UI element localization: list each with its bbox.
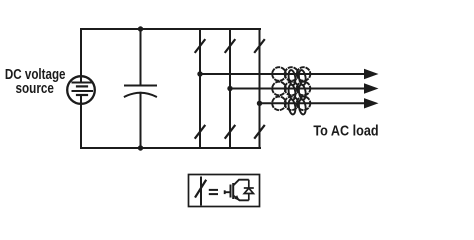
legend: equals sign (209, 190, 218, 194)
legend: switch (slash) symbol (196, 178, 206, 205)
junction dot: top rail / capacitor (138, 26, 143, 31)
wire: phase A output line (200, 73, 366, 75)
node A junction dot (leg A tap) (197, 71, 202, 76)
wire: inverter leg C (259, 29, 261, 148)
svg-text:To AC load: To AC load (313, 124, 378, 140)
legend box (189, 175, 260, 207)
switch S5 (upper, leg C) (255, 40, 264, 52)
switch S1 (upper, leg A) (195, 40, 204, 52)
svg-text:source: source (16, 81, 54, 97)
label: DC voltage source (5, 67, 66, 97)
legend: antiparallel diode D (244, 180, 254, 201)
wire: inverter leg B (229, 29, 231, 148)
DC voltage source (battery in circle) (67, 76, 95, 104)
switch S2 (lower, leg C) (255, 126, 264, 138)
switch S4 (lower, leg A) (195, 126, 204, 138)
node C junction dot (leg C tap) (257, 101, 262, 106)
node B junction dot (leg B tap) (227, 86, 232, 91)
capacitor C (DC link, curved plate) (125, 86, 156, 97)
switch S6 (lower, leg B) (225, 126, 234, 138)
wire: phase C output line (260, 102, 367, 104)
switch S3 (upper, leg B) (225, 40, 234, 52)
wire: inverter leg A (199, 29, 201, 148)
arrowhead: phase C to load (364, 98, 379, 108)
wire: top DC bus rail (81, 28, 260, 30)
wire: bottom DC bus rail (81, 147, 260, 149)
wire: phase B output line (230, 88, 366, 90)
arrowhead: phase A to load (364, 69, 379, 79)
wire: left source branch (upper and lower segments) (80, 29, 82, 148)
inductor L-B (coil, phase B) (272, 82, 310, 100)
wire: capacitor branch upper segment (140, 29, 142, 86)
legend: IGBT emitter arrowhead (234, 195, 239, 201)
junction dot: bottom rail / capacitor (138, 145, 143, 150)
wire: capacitor branch lower segment (140, 93, 142, 148)
legend: IGBT with gate lead (225, 180, 249, 201)
inductor L-A (coil, phase A) (272, 67, 310, 85)
inductor L-C (coil, phase C) (272, 97, 310, 115)
arrowhead: phase B to load (364, 83, 379, 93)
